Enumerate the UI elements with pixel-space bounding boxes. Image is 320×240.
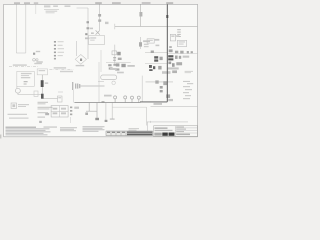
contact — [176, 62, 182, 65]
current transformer — [75, 55, 86, 65]
coil K4a — [160, 57, 163, 60]
manufacturer logo — [162, 133, 174, 136]
label — [110, 68, 117, 70]
meter box P1 — [89, 36, 105, 45]
indicator lamp — [112, 81, 115, 84]
control line — [74, 102, 140, 104]
label — [76, 65, 85, 66]
contact on bus — [166, 15, 168, 18]
label — [18, 104, 29, 107]
cable label — [44, 5, 50, 7]
device box A1 — [147, 39, 154, 43]
junction cluster — [33, 51, 43, 63]
enclosure boundary (dash-dot) — [9, 64, 38, 66]
label — [60, 71, 73, 72]
gauge G2 — [124, 96, 127, 103]
note block — [44, 10, 59, 14]
transformer T1 — [96, 30, 100, 34]
wire — [140, 4, 142, 26]
ground electrode — [105, 120, 108, 122]
wire leg — [111, 103, 113, 119]
contact — [151, 51, 154, 54]
terminal cluster — [168, 62, 174, 67]
wire control bus — [115, 26, 198, 28]
wire — [41, 75, 43, 80]
label — [143, 40, 150, 42]
cable label — [53, 5, 58, 7]
label — [155, 39, 160, 41]
wire earth leg — [96, 103, 98, 118]
legend text — [38, 102, 53, 118]
gauge G1 — [114, 96, 117, 103]
enclosure boundary (dash-dot) — [49, 67, 73, 69]
wire — [114, 45, 116, 64]
wire — [98, 80, 104, 82]
title block frame — [154, 126, 198, 137]
wire — [58, 91, 63, 93]
contact — [155, 80, 158, 83]
resistor bank — [177, 29, 181, 37]
wire — [151, 106, 198, 108]
relay box K2 — [58, 96, 63, 102]
timer box — [170, 34, 175, 41]
wire L1 bus — [15, 4, 17, 53]
wire — [100, 50, 102, 72]
contacts — [175, 56, 181, 59]
motor M1 — [16, 88, 21, 93]
capacitor C1 — [160, 86, 163, 92]
relay K5 — [149, 65, 155, 71]
auxiliary box — [34, 91, 38, 96]
heater R1 — [41, 80, 44, 87]
control box — [17, 71, 35, 86]
contact — [85, 113, 88, 116]
wire dark return — [140, 101, 167, 103]
wire — [16, 86, 18, 88]
label list — [183, 81, 193, 99]
wire — [80, 85, 104, 87]
cable loop — [101, 75, 117, 80]
label — [156, 45, 160, 47]
revision table — [106, 131, 153, 136]
disconnect switch Q1 — [98, 19, 101, 21]
label — [117, 72, 124, 74]
wire — [146, 107, 148, 125]
wire — [140, 37, 142, 49]
gauge G4 — [137, 96, 140, 102]
wire — [167, 53, 197, 55]
gauge G3 — [131, 96, 134, 102]
distribution box — [51, 106, 68, 117]
wire supply drop — [99, 4, 101, 30]
wire leg — [105, 103, 107, 120]
contacts — [166, 94, 170, 98]
wire L2 bus — [25, 4, 27, 53]
contacts — [169, 46, 173, 52]
relay K6 — [168, 55, 173, 60]
wire stub — [35, 4, 37, 14]
contact — [158, 66, 161, 70]
relay K4 — [154, 56, 158, 62]
notes text — [6, 127, 58, 136]
fuse F3 — [139, 12, 142, 17]
fuse F1 — [98, 14, 101, 17]
label — [129, 128, 140, 130]
label — [91, 32, 94, 34]
wire — [106, 62, 131, 64]
wire — [73, 90, 75, 103]
label — [168, 99, 173, 101]
starter box — [37, 69, 47, 75]
wire — [114, 24, 116, 30]
heater R2 — [41, 94, 44, 99]
junction — [102, 101, 105, 102]
contactor K1 contacts — [73, 82, 80, 90]
label — [34, 63, 42, 64]
fuse F2 — [87, 27, 90, 29]
wire — [146, 122, 148, 131]
wire — [145, 63, 167, 65]
label — [154, 103, 163, 105]
contact — [45, 113, 49, 115]
cable label — [65, 5, 71, 7]
component row — [175, 51, 193, 54]
contact — [85, 33, 87, 35]
auxiliary contacts — [108, 64, 119, 71]
notes text — [60, 127, 77, 131]
ground foot — [110, 118, 115, 121]
wire — [41, 87, 43, 94]
label — [90, 28, 93, 30]
label — [85, 37, 90, 39]
main bus bar — [166, 4, 168, 102]
contacts — [172, 70, 177, 73]
label — [176, 126, 190, 135]
contact — [139, 42, 142, 46]
wire earth leg — [88, 103, 90, 112]
label — [176, 35, 179, 37]
label — [104, 95, 112, 97]
contact — [39, 121, 42, 123]
label — [105, 22, 109, 24]
wire — [18, 93, 41, 94]
label — [185, 71, 193, 73]
wire — [41, 98, 58, 100]
terminal row — [116, 63, 126, 67]
wire — [87, 8, 89, 59]
ground electrode — [95, 118, 99, 120]
contact — [163, 81, 167, 85]
label — [183, 56, 190, 58]
wire — [145, 52, 167, 54]
wire bus bottom link — [16, 52, 26, 54]
label — [127, 65, 134, 67]
contact K1 — [87, 21, 90, 23]
relay K3 — [112, 51, 117, 55]
wire — [147, 121, 188, 123]
coil — [117, 52, 121, 56]
label — [168, 67, 179, 69]
wire feeder branch — [77, 7, 89, 9]
wire crossbar — [86, 110, 97, 112]
wire — [141, 76, 143, 102]
wire — [112, 106, 146, 108]
junction box — [11, 103, 16, 108]
label — [144, 44, 149, 45]
device box A2 — [177, 40, 186, 46]
label — [74, 107, 79, 109]
contacts — [113, 57, 121, 61]
label — [162, 71, 171, 74]
terminal strip X1 — [54, 41, 64, 60]
wire — [146, 81, 174, 83]
wire — [75, 41, 77, 56]
terminal column — [70, 107, 72, 116]
label — [45, 82, 48, 84]
wire — [98, 62, 100, 103]
wire — [69, 117, 71, 123]
notes text — [83, 126, 105, 131]
label — [8, 114, 29, 119]
